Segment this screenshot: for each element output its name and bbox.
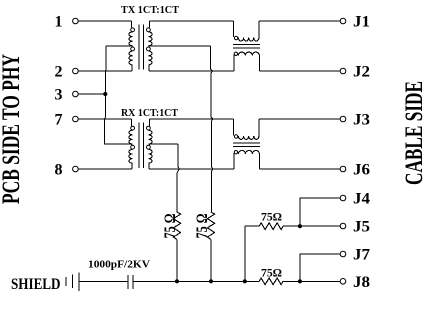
junction R3 shield rail (243, 279, 247, 283)
wire R3 to junction (283, 225, 300, 227)
svg-text:1: 1 (55, 14, 63, 31)
transformer TX primary winding upper (129, 32, 132, 46)
wire junction to J5 (300, 225, 340, 227)
svg-text:75 Ω: 75 Ω (194, 214, 211, 239)
choke L1 top winding dot (234, 36, 237, 39)
svg-text:8: 8 (55, 162, 63, 179)
wire shield rail segment D (283, 280, 300, 282)
choke L2 core (233, 142, 260, 144)
resistor R1 body (173, 212, 180, 240)
junction R3 J4 J5 (298, 224, 302, 228)
choke L2 bottom winding dot (234, 151, 237, 154)
wire shield rail segment C (245, 280, 259, 282)
transformer TX secondary top corner (148, 21, 150, 28)
transformer RX primary top corner (130, 119, 132, 126)
transformer RX secondary tap corner (148, 144, 150, 145)
pin J5 terminal (340, 223, 346, 229)
svg-text:J7: J7 (353, 247, 370, 264)
resistor R2 body (207, 212, 214, 240)
wire choke L1 to J2 (259, 70, 340, 72)
svg-text:SHIELD: SHIELD (11, 276, 61, 293)
svg-text:2: 2 (55, 64, 63, 81)
pin 3 terminal (73, 91, 79, 97)
choke L2 bottom winding (238, 151, 259, 154)
svg-text:J1: J1 (353, 14, 370, 31)
pin 7 terminal (73, 116, 79, 122)
svg-text:7: 7 (55, 112, 63, 129)
wire R1 to shield rail (176, 239, 178, 281)
wire TX secondary tap (149, 45, 210, 47)
svg-text:75Ω: 75Ω (261, 267, 282, 280)
transformer TX primary bottom stub (131, 65, 133, 71)
wire junction to J4 (300, 198, 340, 226)
wire choke L2 to J6 (259, 168, 340, 170)
svg-text:J8: J8 (353, 274, 370, 291)
wire RX tap to R1 (177, 144, 180, 212)
choke L1 top winding exit (258, 21, 260, 38)
pin J7 terminal (340, 251, 346, 257)
pin 1 terminal (73, 18, 79, 24)
wire R3 to shield rail (244, 226, 246, 281)
transformer RX primary bottom stub (131, 163, 133, 169)
wire R3 left (245, 225, 259, 227)
wire pin1 to TX (78, 20, 131, 22)
transformer RX secondary top corner (148, 119, 150, 126)
pin J3 terminal (340, 116, 346, 122)
earth ground (rotated) (65, 277, 67, 286)
wire TX to choke L1 top (149, 20, 233, 22)
capacitor C1 plates (127, 275, 129, 289)
junction pin3 net (103, 92, 107, 96)
transformer TX secondary winding upper (149, 32, 152, 46)
transformer RX primary dot 2 (131, 145, 135, 149)
wire center-tap net vertical (104, 46, 131, 144)
svg-text:J3: J3 (353, 112, 370, 129)
transformer TX primary tap corner (130, 45, 132, 48)
svg-text:RX 1CT:1CT: RX 1CT:1CT (121, 108, 178, 119)
wire RX secondary tap (149, 143, 178, 145)
transformer RX secondary dot 2 (147, 145, 151, 149)
choke L1 top winding (238, 38, 259, 41)
junction R1 shield rail (175, 279, 179, 283)
transformer TX primary dot 2 (131, 47, 135, 51)
choke L1 bottom winding exit (258, 55, 260, 71)
wire shield rail segment B (211, 280, 245, 282)
transformer RX secondary dot 1 (147, 126, 151, 130)
pin 8 terminal (73, 166, 79, 172)
wire TX to choke L1 bottom (149, 70, 234, 72)
transformer RX primary tap corner (130, 144, 132, 145)
choke L2 top winding dot (234, 135, 237, 138)
wire junction to J7 (300, 254, 340, 281)
transformer TX secondary winding lower (149, 51, 152, 65)
wire ground to C1 (79, 280, 128, 282)
resistor R3 body (259, 223, 283, 230)
pin J2 terminal (340, 68, 346, 74)
transformer RX secondary bottom stub (148, 163, 150, 169)
choke L1 bottom winding entry (233, 54, 235, 71)
choke L1 core (233, 44, 260, 46)
wire R2 to shield rail (210, 239, 212, 281)
transformer TX primary top corner (130, 21, 132, 28)
choke L1 bottom winding dot (234, 52, 237, 55)
svg-text:75Ω: 75Ω (261, 211, 282, 224)
svg-text:J2: J2 (353, 64, 370, 81)
resistor R4 body (259, 278, 283, 285)
choke L1 top winding entry (232, 21, 234, 37)
choke L2 bottom winding entry (233, 153, 235, 169)
svg-text:J5: J5 (353, 219, 370, 236)
wire C1 to shield rail (133, 280, 177, 282)
wire shield rail segment A (177, 280, 211, 282)
choke L2 bottom winding exit (258, 154, 260, 169)
wire choke L2 to J3 (259, 118, 340, 120)
wire junction to J8 (300, 280, 340, 282)
choke L1 bottom winding (238, 52, 259, 55)
svg-text:J6: J6 (353, 162, 370, 179)
svg-text:PCB SIDE TO PHY: PCB SIDE TO PHY (0, 54, 25, 204)
svg-text:3: 3 (55, 87, 63, 104)
wire pin2 to TX (78, 70, 132, 72)
transformer TX core (138, 24, 140, 69)
wire RX to choke L2 top (149, 118, 233, 120)
choke L2 top winding (238, 136, 259, 139)
wire RX to choke L2 bottom (149, 168, 234, 170)
wire pin8 to RX (78, 168, 132, 170)
wire TX tap to R2 (211, 46, 214, 212)
transformer TX secondary dot 1 (147, 28, 151, 32)
transformer RX primary dot 1 (131, 126, 135, 130)
junction R2 shield rail (209, 279, 213, 283)
pin J6 terminal (340, 166, 346, 172)
transformer RX secondary winding lower (149, 149, 152, 163)
pin J8 terminal (340, 279, 346, 285)
transformer TX primary winding lower (129, 51, 132, 65)
wire pin3 stub (78, 93, 105, 95)
svg-text:J4: J4 (353, 191, 370, 208)
transformer RX secondary winding upper (149, 130, 152, 144)
svg-text:1000pF/2KV: 1000pF/2KV (88, 259, 150, 271)
transformer TX secondary tap corner (148, 45, 150, 48)
svg-text:TX 1CT:1CT: TX 1CT:1CT (121, 5, 179, 16)
pin J4 terminal (340, 195, 346, 201)
transformer TX secondary dot 2 (147, 47, 151, 51)
svg-text:CABLE SIDE: CABLE SIDE (401, 81, 428, 185)
transformer RX primary winding lower (129, 149, 132, 163)
wire pin7 to RX (78, 118, 131, 120)
junction R4 J7 J8 (298, 279, 302, 283)
transformer RX core (138, 123, 140, 168)
pin J1 terminal (340, 18, 346, 24)
transformer TX secondary bottom stub (148, 65, 150, 71)
choke L2 top winding exit (258, 119, 260, 136)
transformer TX primary dot 1 (131, 28, 135, 32)
choke L2 top winding entry (232, 119, 234, 135)
wire choke L1 to J1 (259, 20, 340, 22)
wire TX primary tap (106, 45, 131, 47)
pin 2 terminal (73, 68, 79, 74)
transformer RX primary winding upper (129, 130, 132, 144)
